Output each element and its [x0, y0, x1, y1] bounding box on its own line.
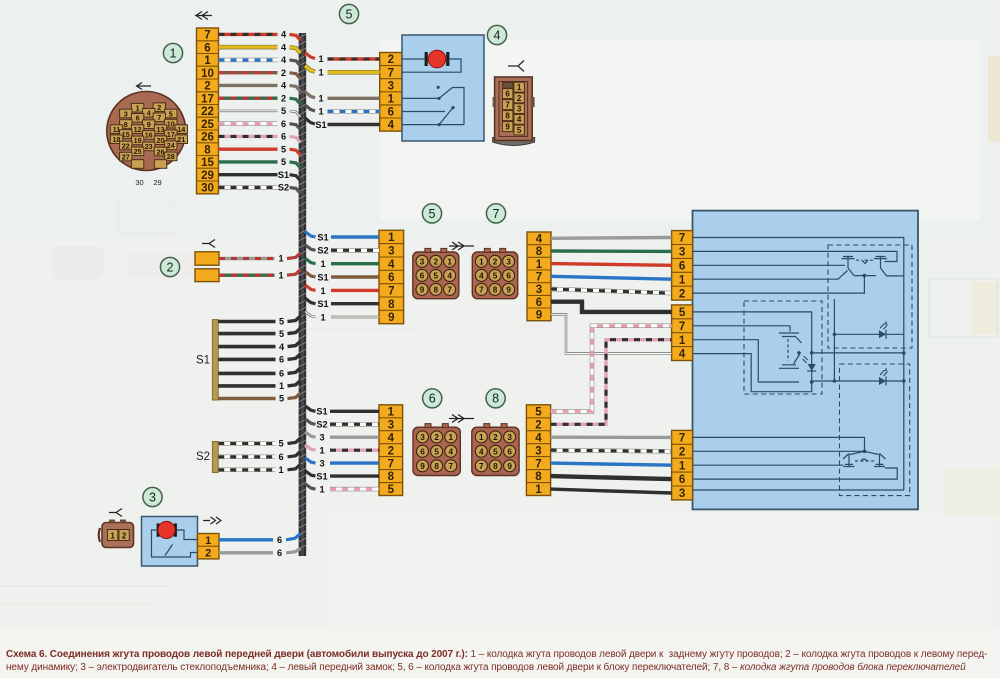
connector 8 pin column [526, 405, 550, 496]
arrow view marker above item3 pins [203, 517, 221, 524]
wire trunk to connector5 pin 3 (1) [305, 258, 379, 269]
svg-text:29: 29 [153, 178, 161, 187]
node item label 2 [160, 257, 179, 276]
wire from connector1 pin 22 to trunk (5) [219, 106, 301, 117]
wire trunk to connector6 pin 3 (3) [305, 432, 379, 443]
svg-text:7: 7 [479, 462, 484, 471]
wire trunk to lock pin (1) [305, 105, 380, 117]
svg-text:7: 7 [449, 462, 454, 471]
svg-text:2: 2 [535, 419, 541, 431]
svg-text:9: 9 [420, 462, 425, 471]
svg-text:14: 14 [177, 125, 185, 134]
svg-text:4: 4 [517, 115, 522, 124]
svg-text:2: 2 [157, 103, 161, 112]
wire from connector1 pin 1 to trunk (4) [219, 55, 301, 66]
svg-text:1: 1 [318, 107, 323, 117]
svg-text:2: 2 [281, 93, 286, 103]
svg-text:5: 5 [388, 484, 395, 496]
svg-text:S1: S1 [317, 272, 328, 282]
svg-text:8: 8 [505, 112, 510, 121]
svg-text:1: 1 [136, 104, 140, 113]
switch block pins group2 [672, 305, 693, 361]
svg-text:7: 7 [388, 458, 394, 470]
svg-text:4: 4 [388, 259, 395, 271]
svg-text:4: 4 [479, 271, 484, 280]
svg-text:8: 8 [492, 392, 499, 406]
svg-text:5: 5 [535, 406, 542, 418]
svg-text:9: 9 [420, 285, 425, 294]
svg-text:7: 7 [204, 30, 210, 42]
wire conn8 pin8 black [551, 476, 672, 479]
wire S1 group 6 (1) [218, 380, 300, 391]
svg-text:1: 1 [278, 254, 283, 264]
svg-text:2: 2 [493, 433, 498, 442]
wire conn7 pin1 red [551, 264, 672, 266]
svg-text:5: 5 [281, 144, 286, 154]
svg-text:12: 12 [134, 125, 142, 134]
svg-text:1: 1 [204, 55, 211, 67]
svg-text:2: 2 [205, 548, 211, 560]
svg-text:5: 5 [278, 439, 283, 449]
svg-text:20: 20 [157, 136, 165, 145]
svg-text:4: 4 [388, 432, 395, 444]
svg-text:5: 5 [281, 106, 286, 116]
wire from connector1 pin 29 to trunk (S1) [219, 170, 301, 181]
svg-text:S1: S1 [196, 355, 210, 367]
svg-text:22: 22 [122, 141, 130, 150]
wire motor pin1 blue [219, 534, 301, 546]
svg-text:5: 5 [429, 207, 436, 221]
wire trunk to connector6 pin 6 (S1) [305, 471, 379, 482]
svg-text:26: 26 [157, 147, 165, 156]
svg-text:13: 13 [157, 125, 165, 134]
node item label 7 [486, 204, 505, 223]
svg-text:1: 1 [318, 54, 323, 64]
svg-text:1: 1 [318, 94, 323, 104]
node item label 6 [423, 389, 442, 408]
svg-text:1: 1 [320, 312, 325, 322]
svg-text:1: 1 [205, 535, 211, 547]
svg-text:3: 3 [679, 247, 685, 259]
svg-text:30: 30 [135, 178, 143, 187]
wire from connector1 pin 17 to trunk (2) [219, 93, 301, 104]
svg-text:4: 4 [479, 447, 484, 456]
svg-text:2: 2 [517, 94, 522, 103]
wire conn7 pin4 grey [551, 236, 672, 240]
svg-text:2: 2 [434, 433, 439, 442]
lock actuator motor [425, 50, 450, 68]
svg-text:22: 22 [201, 106, 214, 118]
svg-text:1: 1 [679, 335, 686, 347]
node item label 8 [486, 389, 505, 408]
svg-text:2: 2 [167, 260, 174, 274]
svg-text:3: 3 [420, 257, 425, 266]
svg-text:6: 6 [277, 548, 282, 558]
svg-text:16: 16 [145, 131, 153, 140]
wire conn7 pin3 white/black [551, 289, 672, 293]
svg-text:1: 1 [319, 446, 324, 456]
svg-text:6: 6 [388, 272, 394, 284]
svg-text:2: 2 [388, 445, 394, 457]
svg-text:28: 28 [167, 152, 175, 161]
wire S1 group 2 (5) [218, 328, 300, 339]
svg-text:30: 30 [201, 183, 214, 195]
motor symbol [157, 521, 177, 538]
wire motor pin2 grey [219, 548, 301, 558]
node item label 5 [339, 4, 358, 23]
left front lock body (item 4) [402, 35, 484, 141]
connector 1 pin column [197, 28, 219, 195]
svg-text:1: 1 [679, 274, 686, 286]
svg-text:6: 6 [279, 369, 284, 379]
wire conn7 pin6 black [551, 302, 672, 312]
svg-text:4: 4 [536, 234, 543, 246]
svg-text:6: 6 [281, 132, 286, 142]
window-lift electric motor body (item 3) [142, 517, 198, 567]
wire conn7 pin9 thin white [551, 314, 672, 353]
arrow view marker left of item3 [109, 509, 122, 517]
svg-text:3: 3 [420, 433, 425, 442]
svg-text:8: 8 [434, 285, 439, 294]
svg-text:7: 7 [536, 272, 542, 284]
svg-text:9: 9 [507, 462, 512, 471]
svg-text:4: 4 [535, 432, 542, 444]
svg-text:5: 5 [434, 447, 439, 456]
svg-text:1: 1 [170, 46, 177, 60]
svg-text:3: 3 [517, 105, 522, 114]
wire conn8 pin5 white/pink [551, 326, 672, 412]
svg-text:6: 6 [136, 114, 140, 123]
wire speaker 1 (grey/red) [219, 253, 301, 264]
connector 5 pin column [379, 230, 404, 324]
svg-text:4: 4 [494, 28, 501, 42]
motor interior wiring [152, 530, 198, 557]
svg-text:5: 5 [493, 447, 498, 456]
svg-text:4: 4 [281, 55, 287, 65]
svg-text:5: 5 [279, 317, 284, 327]
wire S1 group 3 (4) [218, 341, 300, 352]
wire S2 group (6) [218, 451, 300, 462]
switch block pins group3 [672, 430, 693, 500]
svg-text:4: 4 [279, 342, 285, 352]
svg-text:6: 6 [420, 271, 425, 280]
wire S2 group (1) [218, 464, 300, 475]
svg-text:S2: S2 [278, 183, 289, 193]
svg-text:1: 1 [278, 465, 283, 475]
svg-text:26: 26 [201, 132, 214, 144]
svg-text:2: 2 [493, 257, 498, 266]
svg-text:5: 5 [346, 7, 353, 21]
svg-text:4: 4 [449, 447, 454, 456]
window switch unit 2 (bottom) [693, 437, 904, 490]
svg-text:9: 9 [536, 310, 542, 322]
svg-text:S1: S1 [317, 299, 328, 309]
svg-text:9: 9 [147, 120, 151, 129]
node item label 3 [143, 487, 162, 506]
svg-text:1: 1 [388, 406, 395, 418]
LED indicator 1 [879, 321, 888, 338]
arrow view marker above lock connector [508, 61, 524, 72]
wire conn8 pin4 grey [551, 436, 672, 440]
svg-text:1: 1 [278, 270, 283, 280]
wire from connector1 pin 25 to trunk (6) [219, 119, 301, 130]
arrow view marker top-left [195, 12, 212, 20]
svg-text:7: 7 [505, 101, 510, 110]
svg-text:1: 1 [319, 485, 324, 495]
svg-text:1: 1 [320, 286, 325, 296]
window switch unit 1 (top) [693, 238, 904, 382]
lock mating connector face [493, 77, 535, 146]
svg-text:1: 1 [449, 433, 454, 442]
S1 splice bar [212, 320, 218, 400]
svg-text:1: 1 [388, 94, 395, 106]
node S2 label [196, 451, 210, 463]
svg-text:5: 5 [169, 109, 173, 118]
svg-text:1: 1 [517, 83, 522, 92]
svg-text:3: 3 [507, 433, 512, 442]
LED indicator 3 [879, 368, 888, 385]
wire trunk to connector5 pin 2 (S2) [305, 245, 379, 256]
wire conn8 pin1 black [551, 489, 672, 493]
svg-text:5: 5 [434, 271, 439, 280]
svg-text:3: 3 [319, 459, 324, 469]
svg-text:2: 2 [679, 446, 685, 458]
svg-text:7: 7 [493, 207, 500, 221]
wire S2 group (5) [218, 438, 300, 449]
svg-text:7: 7 [447, 285, 452, 294]
wire trunk to connector6 pin 4 (1) [305, 445, 379, 456]
svg-text:9: 9 [388, 312, 394, 324]
svg-text:15: 15 [201, 157, 214, 169]
svg-text:S2: S2 [317, 246, 328, 256]
wire conn8 pin3 white/black [551, 450, 672, 451]
wire trunk (door harness bundle) [299, 33, 307, 556]
svg-text:7: 7 [679, 233, 685, 245]
svg-text:3: 3 [536, 284, 542, 296]
node S1 label [196, 355, 210, 367]
svg-text:23: 23 [145, 142, 153, 151]
svg-text:4: 4 [388, 120, 395, 132]
svg-text:3: 3 [535, 445, 541, 457]
svg-text:1: 1 [318, 67, 323, 77]
svg-text:17: 17 [201, 93, 214, 105]
svg-text:S2: S2 [316, 420, 327, 430]
svg-text:8: 8 [124, 120, 128, 129]
wire trunk to connector6 pin 7 (1) [305, 484, 379, 495]
svg-text:4: 4 [147, 109, 151, 118]
central switch unit (middle) [693, 312, 904, 490]
wire trunk to lock pin (1) [305, 66, 380, 78]
svg-text:6: 6 [679, 474, 685, 486]
arrow marker between 6 and 8 [449, 415, 474, 423]
svg-text:29: 29 [201, 170, 214, 182]
wire from connector1 pin 7 to trunk (4) [219, 30, 301, 41]
node item label 1 [163, 43, 182, 62]
svg-text:6: 6 [506, 271, 511, 280]
wire from connector1 pin 15 to trunk (5) [219, 157, 301, 168]
svg-text:10: 10 [167, 119, 175, 128]
wire conn8 pin7 blue [551, 463, 672, 465]
lock connector pin column [380, 53, 402, 132]
svg-text:3: 3 [388, 245, 394, 257]
svg-text:6: 6 [281, 119, 286, 129]
svg-text:3: 3 [319, 433, 324, 443]
svg-text:2: 2 [122, 531, 127, 540]
svg-text:7: 7 [535, 458, 541, 470]
connector 1 rear-harness round connector body [107, 92, 188, 188]
svg-text:S1: S1 [316, 472, 327, 482]
svg-text:8: 8 [536, 246, 543, 258]
svg-text:5: 5 [281, 157, 286, 167]
svg-text:25: 25 [134, 147, 142, 156]
caption text [6, 648, 998, 674]
svg-text:8: 8 [388, 299, 395, 311]
svg-text:7: 7 [479, 285, 484, 294]
svg-text:1: 1 [479, 257, 484, 266]
wire conn7 pin8 green [551, 249, 672, 253]
wire trunk to connector5 pin 1 (S1) [305, 232, 379, 243]
wire from connector1 pin 10 to trunk (2) [219, 68, 301, 79]
lock interior wiring [402, 59, 464, 125]
svg-text:8: 8 [434, 462, 439, 471]
connector 6 pin column [379, 405, 403, 496]
wire S1 group 7 (5) [218, 393, 300, 404]
svg-text:9: 9 [505, 123, 510, 132]
connector 8 3x3 connector face [472, 424, 519, 476]
svg-text:7: 7 [679, 321, 685, 333]
wire trunk to connector5 pin 7 (1) [305, 312, 379, 323]
LED indicator 2 (in central unit) [803, 356, 817, 371]
svg-text:3: 3 [124, 109, 128, 118]
wire from connector1 pin 8 to trunk (5) [219, 144, 301, 155]
svg-text:3: 3 [149, 490, 156, 504]
svg-text:6: 6 [279, 355, 284, 365]
svg-text:1: 1 [479, 433, 484, 442]
svg-text:1: 1 [535, 484, 542, 496]
svg-text:1: 1 [388, 232, 395, 244]
svg-text:24: 24 [167, 141, 175, 150]
arrow marker between 5 and 7 [449, 242, 474, 250]
wire trunk to connector5 pin 4 (S1) [305, 272, 379, 283]
svg-text:6: 6 [278, 452, 283, 462]
svg-text:S1: S1 [317, 232, 328, 242]
svg-text:3: 3 [388, 80, 394, 92]
svg-text:1: 1 [536, 259, 543, 271]
motor pin column [198, 534, 220, 560]
svg-text:6: 6 [507, 447, 512, 456]
svg-text:4: 4 [679, 349, 686, 361]
wire conn7 pin7 blue [551, 276, 672, 279]
switch block interior: dashed unit boxes [744, 245, 912, 496]
svg-text:7: 7 [388, 286, 394, 298]
wire from connector1 pin 2 to trunk (4) [219, 81, 301, 92]
connector 5 3x3 connector face [413, 248, 459, 298]
svg-text:3: 3 [506, 257, 511, 266]
svg-text:25: 25 [201, 119, 214, 131]
svg-text:8: 8 [493, 285, 498, 294]
svg-text:2: 2 [281, 68, 286, 78]
svg-text:6: 6 [277, 535, 282, 545]
svg-text:21: 21 [177, 135, 185, 144]
svg-text:4: 4 [281, 81, 287, 91]
arrow view marker above item2 [202, 240, 215, 248]
connector 6 3x3 connector face [413, 424, 460, 476]
wire speaker 2 (green/red) [219, 270, 301, 281]
wire trunk to lock pin (1) [305, 53, 380, 65]
svg-text:5: 5 [679, 307, 686, 319]
wire trunk to lock pin (S1) [305, 118, 380, 130]
svg-text:1: 1 [679, 460, 686, 472]
svg-text:S2: S2 [196, 451, 210, 463]
svg-text:6: 6 [204, 42, 210, 54]
svg-text:7: 7 [679, 433, 685, 445]
switch block pins group1 [672, 231, 693, 301]
node item label 4 [487, 25, 506, 44]
svg-text:S1: S1 [316, 407, 327, 417]
wire trunk to connector5 pin 6 (S1) [305, 298, 379, 309]
wire S1 group 4 (6) [218, 354, 300, 365]
node item label 5 [422, 204, 441, 223]
svg-text:19: 19 [134, 136, 142, 145]
svg-text:6: 6 [388, 107, 394, 119]
svg-text:1: 1 [110, 531, 115, 540]
svg-text:4: 4 [281, 42, 287, 52]
svg-text:8: 8 [204, 144, 211, 156]
wire trunk to connector5 pin 5 (1) [305, 285, 379, 296]
svg-text:27: 27 [122, 152, 130, 161]
svg-text:5: 5 [279, 329, 284, 339]
svg-text:1: 1 [447, 257, 452, 266]
svg-text:1: 1 [279, 381, 284, 391]
svg-text:8: 8 [493, 462, 498, 471]
svg-text:10: 10 [201, 68, 214, 80]
svg-text:4: 4 [447, 271, 452, 280]
speaker connector blocks [195, 252, 219, 282]
svg-text:2: 2 [434, 257, 439, 266]
svg-text:2: 2 [388, 54, 394, 66]
svg-text:3: 3 [679, 488, 685, 500]
svg-text:8: 8 [535, 471, 542, 483]
motor mating connector face [99, 520, 134, 548]
wire S1 group 1 (5) [218, 316, 300, 327]
svg-text:4: 4 [281, 30, 287, 40]
svg-text:1: 1 [320, 259, 325, 269]
connector 7 pin column [527, 232, 551, 322]
svg-text:5: 5 [279, 394, 284, 404]
svg-text:2: 2 [204, 81, 210, 93]
svg-text:S1: S1 [278, 170, 289, 180]
S2 splice bar [212, 442, 218, 473]
wire from connector1 pin 26 to trunk (6) [219, 132, 301, 143]
connector 7 3x3 connector face [472, 248, 517, 298]
wire trunk to lock pin (1) [305, 92, 380, 104]
svg-text:3: 3 [388, 419, 394, 431]
svg-text:7: 7 [157, 113, 161, 122]
wire trunk to connector6 pin 1 (S1) [305, 406, 379, 417]
wire conn8 pin2 pink/black [551, 340, 672, 425]
svg-text:7: 7 [388, 67, 394, 79]
svg-text:5: 5 [517, 126, 522, 135]
svg-text:2: 2 [679, 288, 685, 300]
wire from connector1 pin 6 to trunk (4) [219, 42, 301, 53]
switch block body [693, 211, 919, 510]
svg-text:6: 6 [429, 392, 436, 406]
wire trunk to connector6 pin 5 (3) [305, 458, 379, 469]
svg-text:17: 17 [167, 130, 175, 139]
wire from connector1 pin 30 to trunk (S2) [219, 183, 301, 194]
wire S1 group 5 (6) [218, 368, 300, 379]
wire trunk to connector6 pin 2 (S2) [305, 419, 379, 430]
